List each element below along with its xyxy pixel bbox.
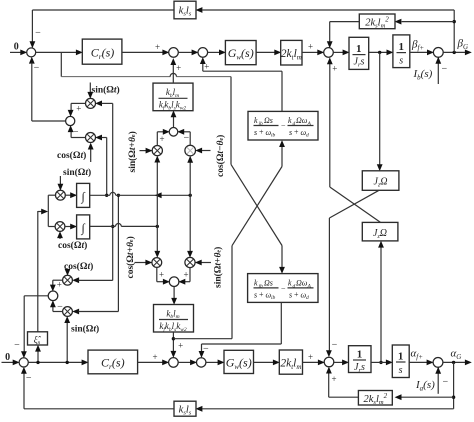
svg-text:Ωs: Ωs <box>264 116 273 125</box>
svg-text:−: − <box>203 344 209 355</box>
svg-text:−: − <box>14 340 20 351</box>
svg-text:d: d <box>306 133 309 139</box>
svg-text:1: 1 <box>398 351 404 363</box>
svg-text:s: s <box>289 128 292 137</box>
svg-text:Ib(s): Ib(s) <box>413 68 433 82</box>
svg-text:Cr(s): Cr(s) <box>101 356 125 371</box>
svg-text:ib: ib <box>271 295 276 301</box>
svg-text:+: + <box>76 104 81 114</box>
svg-text:+: + <box>204 62 209 72</box>
svg-text:+: + <box>57 280 62 290</box>
svg-text:+: + <box>159 134 164 144</box>
svg-text:+: + <box>331 374 336 384</box>
svg-text:+: + <box>155 42 160 52</box>
svg-text:0: 0 <box>5 352 10 363</box>
svg-text:βf+: βf+ <box>411 39 424 53</box>
svg-text:d: d <box>306 295 309 301</box>
svg-text:−: − <box>183 132 189 143</box>
svg-text:s: s <box>399 365 403 376</box>
svg-text:−: − <box>442 64 448 75</box>
svg-text:+: + <box>176 63 181 73</box>
svg-text:+: + <box>332 64 337 74</box>
svg-text:Cr(s): Cr(s) <box>91 46 115 61</box>
svg-text:k: k <box>288 279 292 288</box>
svg-text:−: − <box>332 340 338 351</box>
svg-text:+: + <box>294 290 299 299</box>
svg-text:cos(Ωt+θe): cos(Ωt+θe) <box>125 236 136 278</box>
svg-text:∫: ∫ <box>81 190 86 204</box>
svg-text:k: k <box>288 116 292 125</box>
svg-text:s: s <box>289 291 292 300</box>
svg-text:cos(Ωt): cos(Ωt) <box>57 150 86 161</box>
svg-text:JzΩ: JzΩ <box>373 228 387 240</box>
svg-text:sin(Ωt+θe): sin(Ωt+θe) <box>127 131 138 172</box>
svg-text:+: + <box>308 352 313 362</box>
svg-text:+: + <box>308 42 313 52</box>
svg-text:−: − <box>281 122 286 131</box>
svg-text:1: 1 <box>356 43 362 55</box>
svg-text:cos(Ωt−θe): cos(Ωt−θe) <box>215 135 226 177</box>
svg-text:−: − <box>34 63 40 74</box>
svg-text:A: A <box>307 121 312 127</box>
svg-text:1: 1 <box>357 349 363 361</box>
svg-text:+: + <box>294 128 299 137</box>
svg-text:s: s <box>254 291 257 300</box>
svg-text:sin(Ωt): sin(Ωt) <box>92 85 120 96</box>
svg-text:sin(Ωt): sin(Ωt) <box>63 167 91 178</box>
svg-text:+: + <box>152 352 157 362</box>
svg-text:+: + <box>178 340 183 350</box>
svg-text:∫: ∫ <box>81 221 86 235</box>
svg-text:Ωs: Ωs <box>264 279 273 288</box>
svg-text:αf+: αf+ <box>411 348 424 362</box>
svg-text:A: A <box>307 284 312 290</box>
svg-text:+: + <box>259 128 264 137</box>
svg-text:Ωω: Ωω <box>296 279 308 288</box>
svg-text:βG: βG <box>457 38 469 52</box>
svg-text:−: − <box>443 377 449 388</box>
svg-text:ib: ib <box>259 284 264 290</box>
svg-text:−: − <box>57 301 63 312</box>
svg-text:k: k <box>254 116 258 125</box>
svg-text:JzΩ: JzΩ <box>373 177 387 189</box>
svg-text:+: + <box>259 290 264 299</box>
svg-text:ib: ib <box>259 121 264 127</box>
svg-text:−: − <box>73 127 79 138</box>
svg-text:+: + <box>159 270 164 280</box>
svg-text:+: + <box>183 270 188 280</box>
svg-text:k: k <box>254 279 258 288</box>
svg-text:cos(Ωt): cos(Ωt) <box>58 240 87 251</box>
svg-text:s: s <box>399 56 403 67</box>
svg-text:Gw(s): Gw(s) <box>228 46 254 61</box>
svg-text:sin(Ωt+θe): sin(Ωt+θe) <box>213 247 224 288</box>
svg-text:Ia(s): Ia(s) <box>415 379 435 393</box>
svg-text:0: 0 <box>14 41 19 52</box>
svg-text:αG: αG <box>451 347 462 361</box>
svg-text:1: 1 <box>398 41 404 53</box>
svg-text:Ωω: Ωω <box>296 116 308 125</box>
svg-text:s: s <box>254 128 257 137</box>
svg-text:sin(Ωt): sin(Ωt) <box>71 324 99 335</box>
svg-text:−: − <box>26 373 32 384</box>
svg-text:ib: ib <box>271 133 276 139</box>
svg-text:−: − <box>281 284 286 293</box>
svg-text:Gw(s): Gw(s) <box>226 356 252 371</box>
svg-text:−: − <box>35 28 41 39</box>
